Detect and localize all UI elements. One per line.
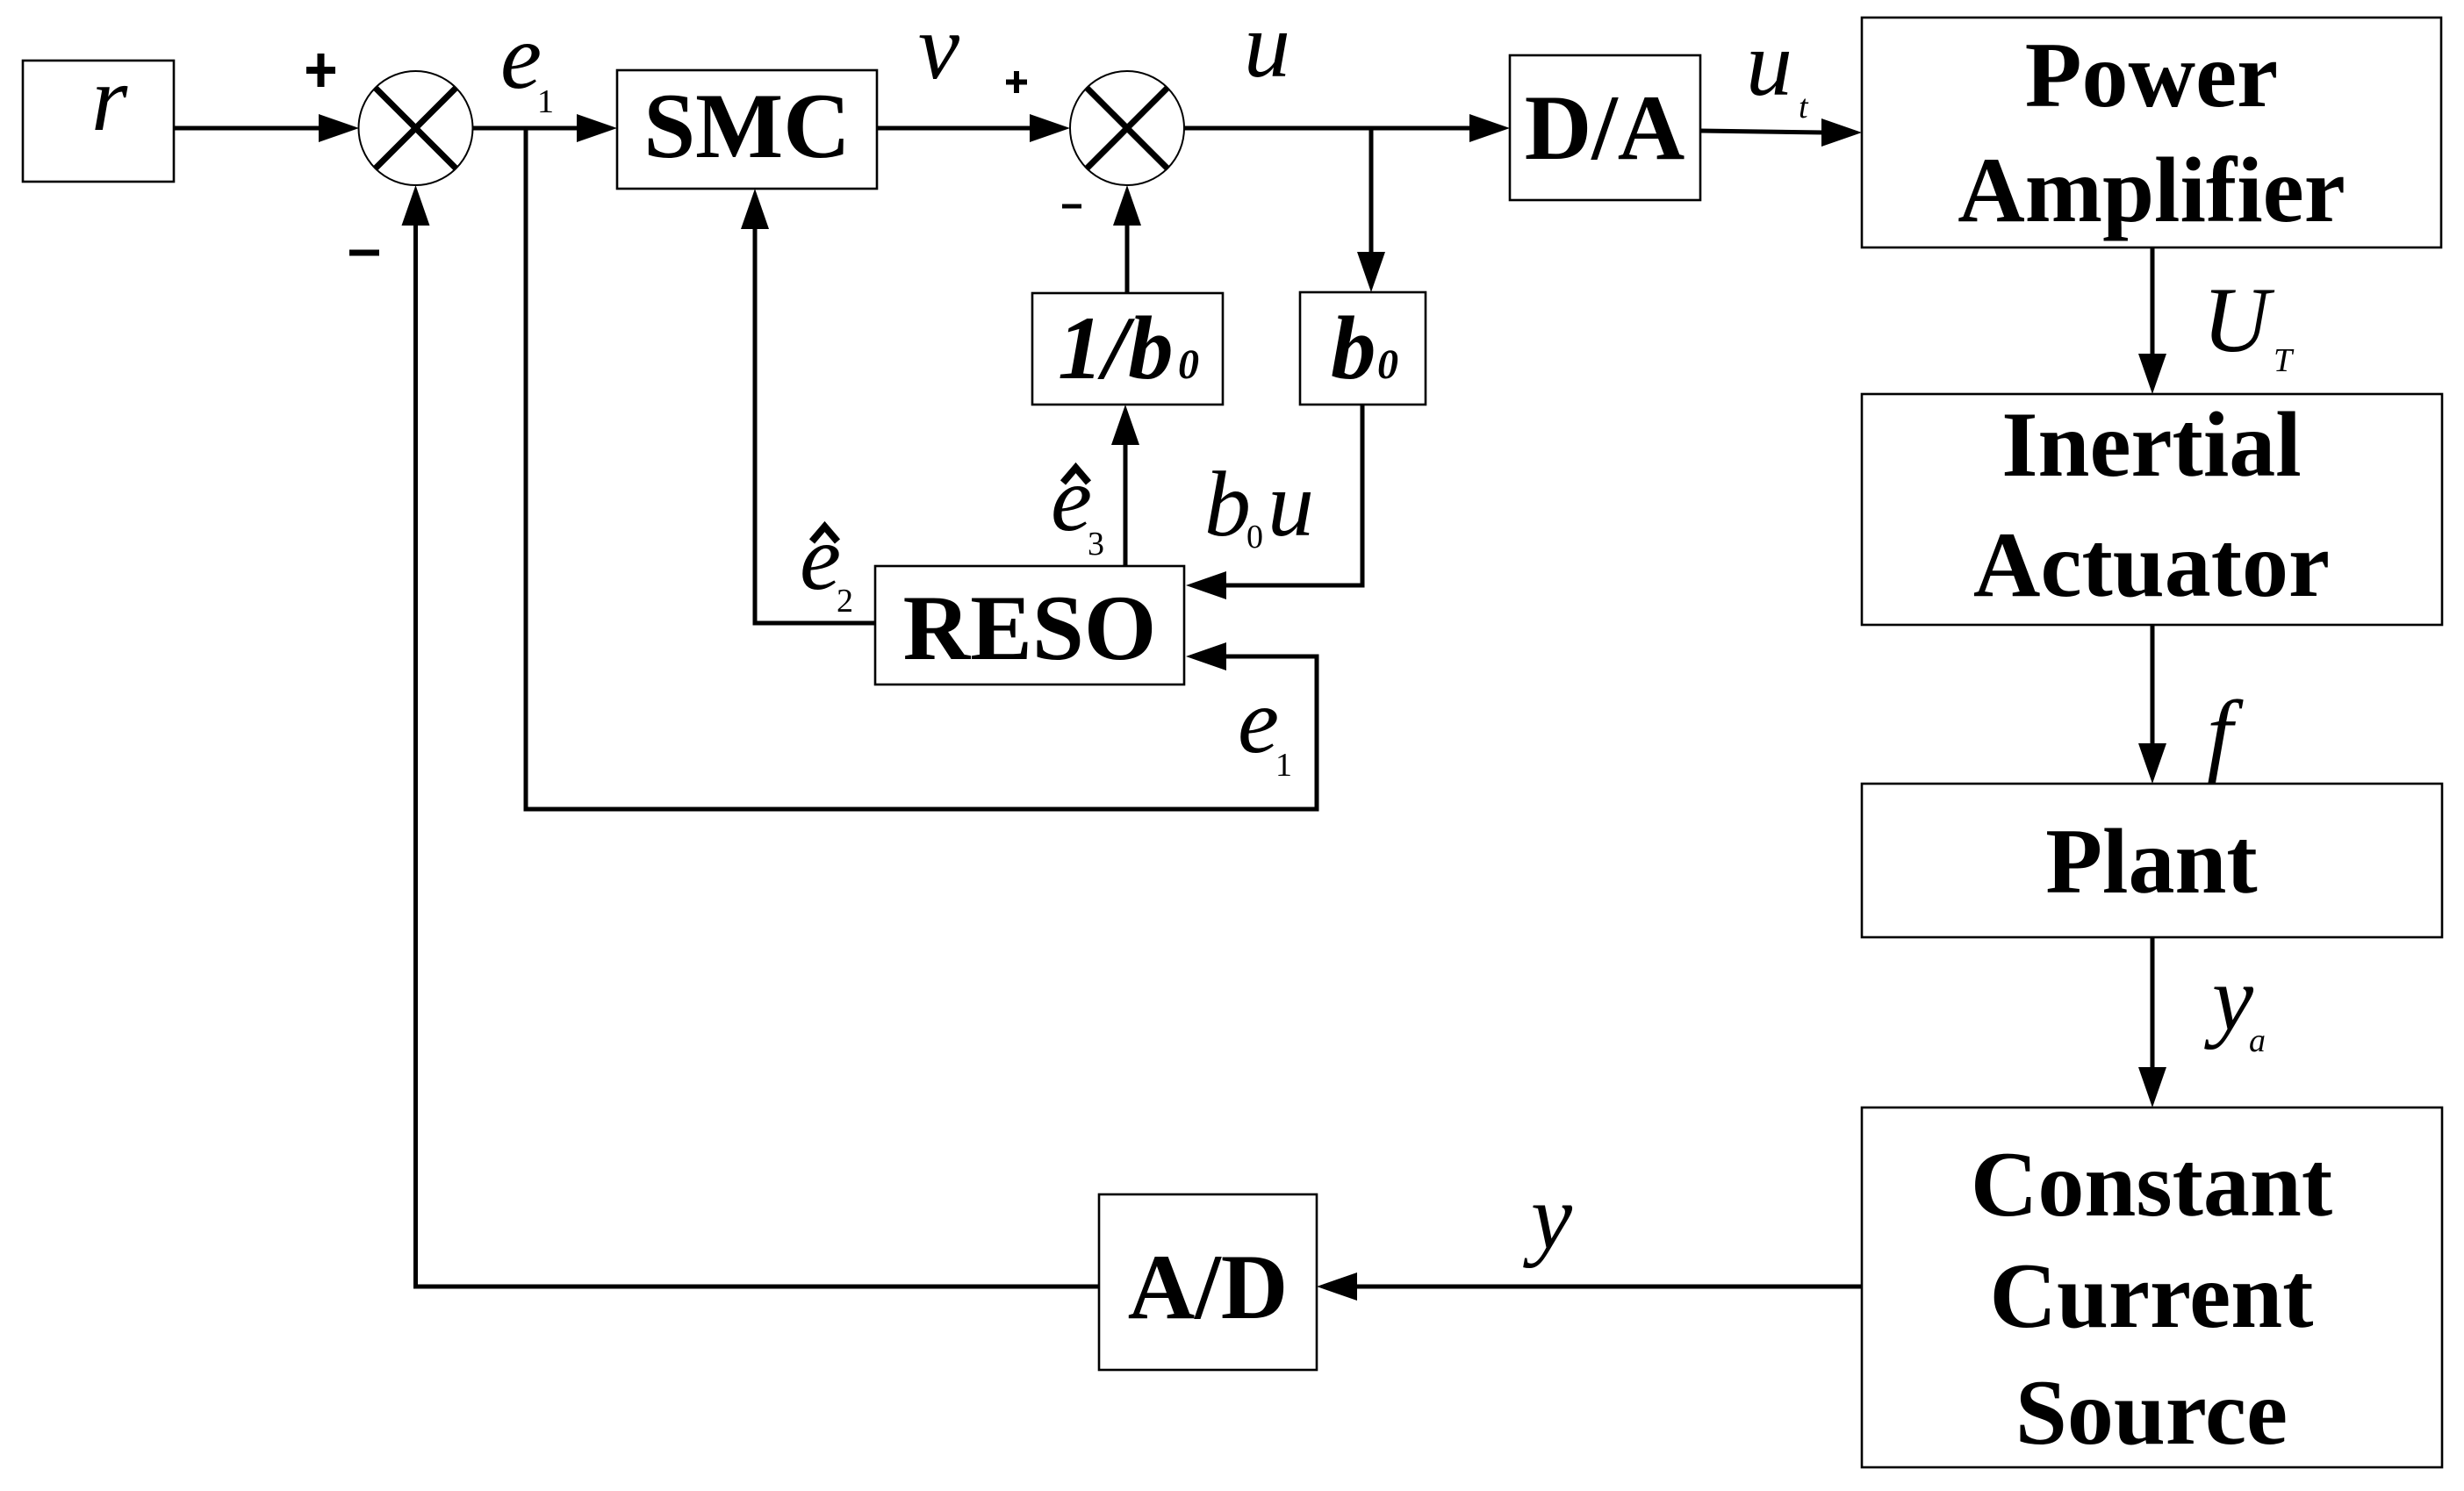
svg-text:u: u	[1746, 12, 1792, 115]
node label u	[1244, 0, 1290, 97]
wire b0 to RESO (b0u)	[1186, 405, 1362, 599]
wire RESO to SMC (e2 hat)	[741, 189, 875, 623]
svg-text:Current: Current	[1990, 1244, 2314, 1347]
summing junction S2	[1070, 71, 1184, 185]
svg-text:0: 0	[1178, 341, 1199, 388]
svg-text:y: y	[1523, 1165, 1573, 1268]
block 1/b0	[1032, 293, 1223, 405]
wire A/D feedback to S1	[402, 185, 1100, 1287]
svg-text:0: 0	[1377, 341, 1398, 388]
block RESO	[875, 566, 1184, 685]
svg-text:A/D: A/D	[1128, 1236, 1289, 1338]
wire Power Amplifier to Inertial Actuator	[2138, 247, 2166, 394]
wire SMC to summing junction S2	[877, 114, 1070, 142]
wire Constant Current Source to A/D	[1317, 1272, 1862, 1301]
svg-text:T: T	[2274, 342, 2295, 379]
node label y_a	[2204, 947, 2266, 1059]
svg-text:e: e	[1238, 670, 1279, 772]
svg-text:t: t	[1799, 89, 1809, 125]
svg-text:Actuator: Actuator	[1973, 513, 2330, 616]
minus sign at S2	[1062, 204, 1081, 209]
svg-text:1: 1	[537, 83, 554, 120]
node label e3 hat	[1051, 448, 1104, 563]
svg-text:2: 2	[837, 583, 853, 620]
wire RESO to 1/b0 (e3 hat)	[1111, 405, 1139, 566]
svg-text:Amplifier: Amplifier	[1958, 139, 2345, 241]
svg-text:SMC: SMC	[643, 75, 851, 177]
block Plant	[1862, 784, 2442, 937]
block r	[23, 47, 174, 182]
minus sign at S1	[349, 250, 379, 256]
svg-text:Power: Power	[2025, 24, 2278, 126]
svg-text:b: b	[1204, 453, 1251, 556]
node label U_T	[2202, 269, 2295, 379]
node label u_t	[1746, 12, 1809, 125]
wire Plant to Constant Current Source	[2138, 937, 2166, 1107]
node label y	[1523, 1165, 1573, 1268]
node label e1	[500, 5, 554, 120]
svg-text:e: e	[800, 506, 841, 609]
svg-text:U: U	[2202, 269, 2275, 371]
wire S1 to SMC	[473, 114, 618, 142]
block Inertial Actuator	[1862, 393, 2442, 625]
wire e1 node to RESO	[526, 128, 1317, 809]
svg-text:RESO: RESO	[903, 577, 1157, 679]
wire D/A to Power Amplifier	[1700, 118, 1862, 147]
block D/A	[1510, 55, 1700, 200]
block b0	[1300, 292, 1426, 405]
wire Inertial Actuator to Plant	[2138, 625, 2166, 784]
summing junction S1	[359, 71, 473, 185]
svg-text:1: 1	[1275, 747, 1292, 784]
svg-text:Source: Source	[2015, 1361, 2288, 1464]
svg-text:u: u	[1268, 453, 1314, 556]
wire S2 to D/A with branch node u	[1184, 114, 1510, 142]
block SMC	[617, 70, 877, 189]
svg-text:3: 3	[1088, 526, 1104, 563]
plus sign at S1	[306, 54, 335, 87]
node label b0u	[1204, 453, 1314, 556]
wire r to summing junction S1	[174, 114, 359, 142]
svg-text:v: v	[918, 0, 960, 98]
node label e1 (feedback into RESO)	[1238, 670, 1292, 784]
svg-text:Constant: Constant	[1971, 1133, 2332, 1236]
block A/D	[1099, 1194, 1317, 1370]
svg-text:Plant: Plant	[2045, 810, 2257, 913]
svg-text:Inertial: Inertial	[2001, 393, 2302, 496]
node label e2 hat	[800, 506, 853, 620]
wire 1/b0 to S2 minus input	[1113, 185, 1141, 293]
svg-text:D/A: D/A	[1525, 76, 1685, 179]
svg-text:b: b	[1331, 298, 1376, 398]
svg-text:r: r	[91, 47, 128, 150]
svg-text:a: a	[2249, 1022, 2266, 1059]
plus sign at S2	[1006, 71, 1027, 93]
node label v	[918, 0, 960, 98]
svg-text:1/b: 1/b	[1058, 298, 1174, 398]
node label f	[2207, 682, 2244, 785]
svg-text:u: u	[1244, 0, 1290, 97]
block Power Amplifier	[1862, 18, 2441, 247]
wire u node down to b0	[1357, 128, 1385, 292]
block Constant Current Source	[1862, 1107, 2442, 1467]
svg-text:y: y	[2204, 947, 2254, 1050]
svg-text:e: e	[500, 5, 542, 108]
svg-text:e: e	[1051, 448, 1092, 550]
svg-text:0: 0	[1246, 519, 1263, 556]
